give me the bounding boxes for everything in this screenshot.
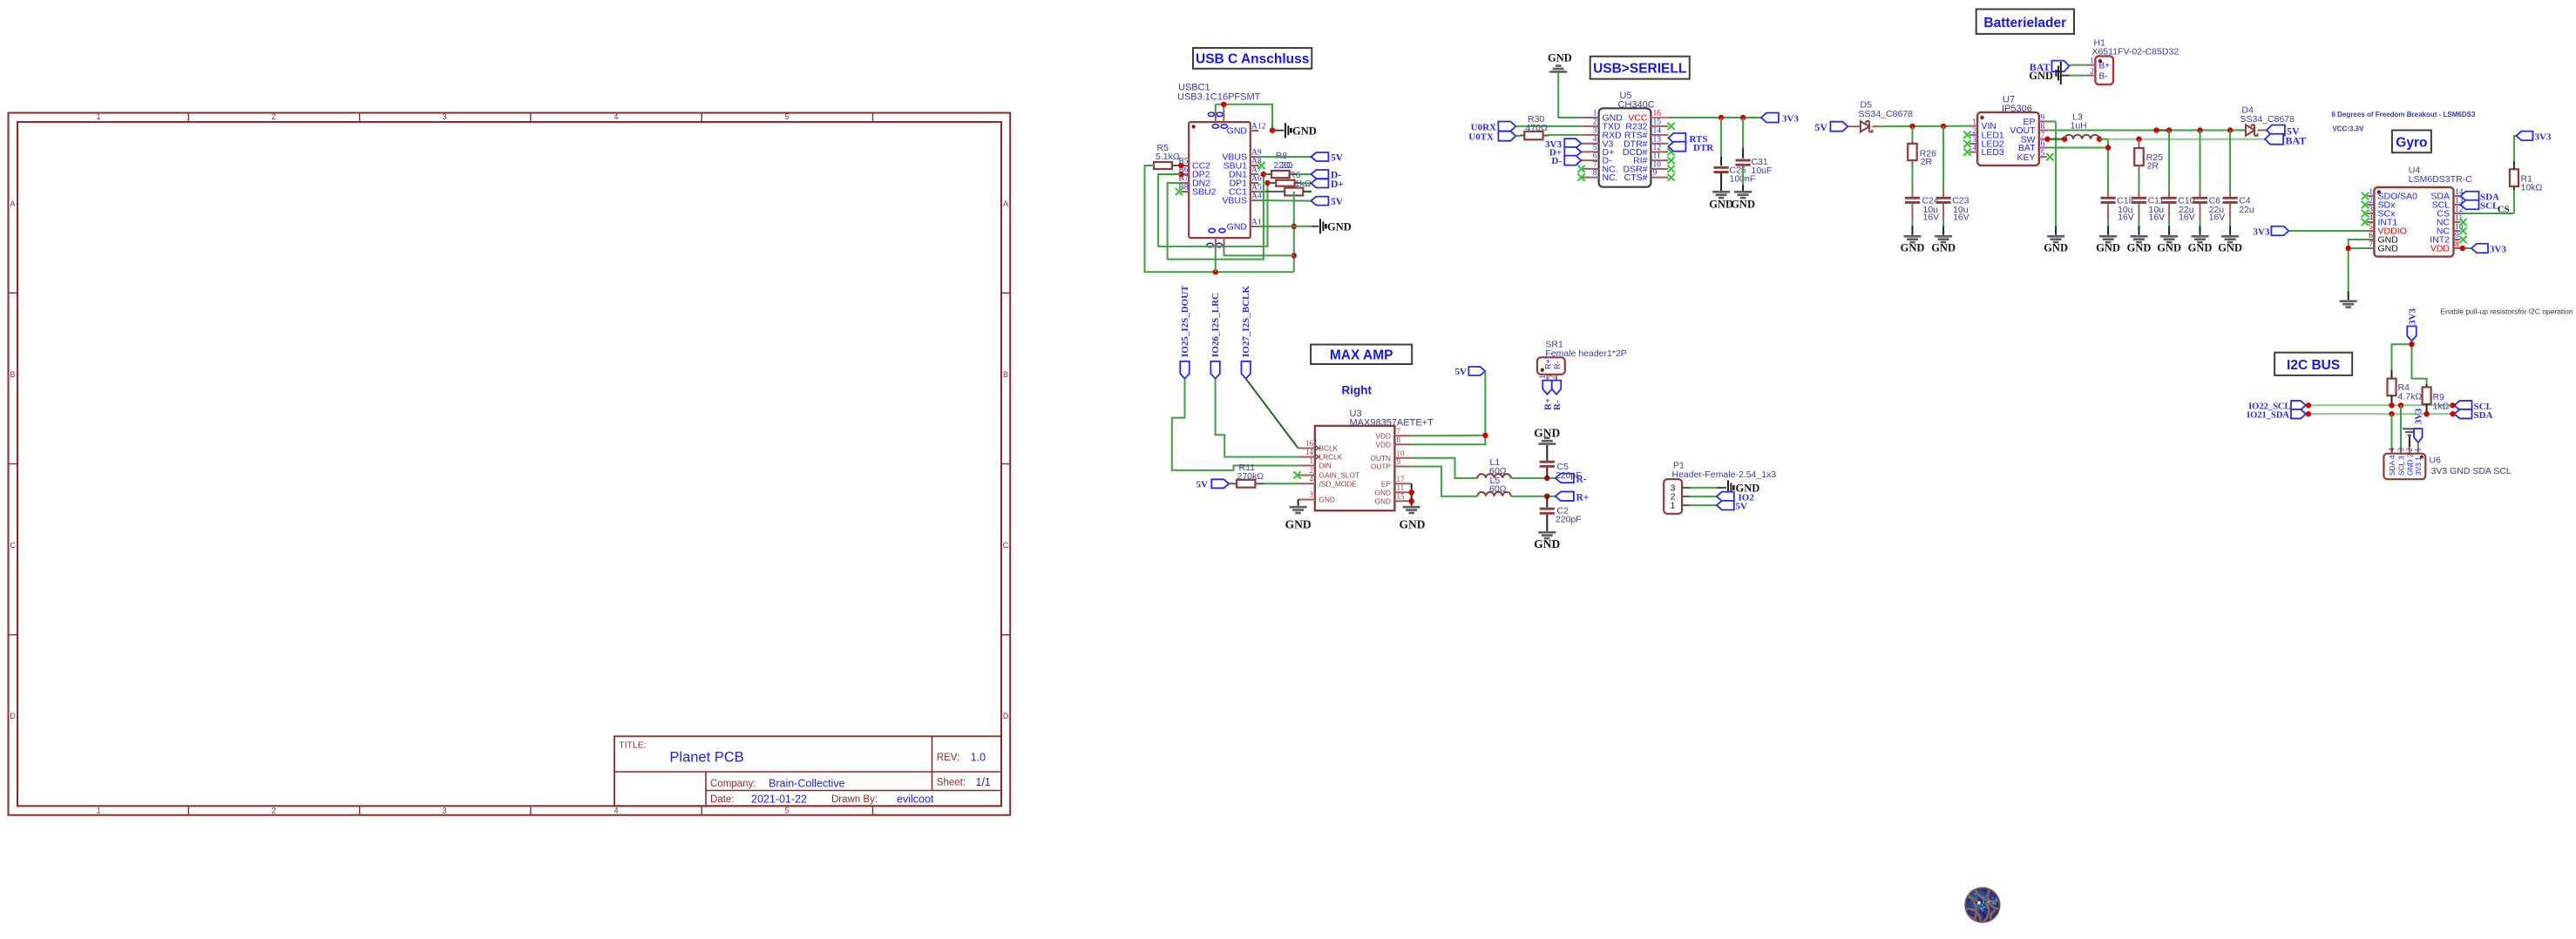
net flag RTS: [1668, 133, 1707, 145]
U4 pin numbers: [2369, 188, 2464, 249]
connector USBC1 body: [1189, 122, 1251, 238]
USBC1 shell pads top: [1208, 112, 1227, 128]
power flag 5V at P1: [1717, 501, 1747, 512]
svg-text:5V: 5V: [1814, 121, 1827, 133]
svg-text:GND: GND: [1375, 497, 1391, 505]
svg-text:C: C: [1003, 541, 1009, 550]
junction R26 top: [1909, 124, 1915, 129]
section label Gyro: [2392, 131, 2431, 153]
svg-text:1: 1: [1538, 375, 1547, 380]
svg-text:Date:: Date:: [710, 794, 735, 805]
svg-text:7: 7: [1397, 427, 1401, 436]
capacitor C4: [2223, 131, 2238, 235]
svg-text:7: 7: [1593, 161, 1597, 170]
wire pin3 GND: [1298, 500, 1299, 506]
svg-text:16: 16: [1653, 110, 1662, 118]
svg-text:15: 15: [1397, 492, 1406, 501]
header SR1 designator: [1545, 340, 1626, 359]
svg-text:5V: 5V: [1331, 197, 1344, 207]
USBC1 pin numbers: [1178, 123, 1265, 227]
svg-text:IO21_SDA: IO21_SDA: [2247, 410, 2289, 420]
svg-text:CS: CS: [2498, 206, 2510, 215]
net flag D- at pin6: [1551, 156, 1581, 167]
wire IO25 to DIN: [1172, 379, 1298, 470]
svg-text:GND: GND: [1292, 125, 1317, 137]
USBC1 shell stubs top: [1216, 105, 1224, 122]
wire VDD to 3V3: [2461, 247, 2472, 249]
svg-text:5: 5: [784, 807, 789, 815]
svg-text:10kΩ: 10kΩ: [2521, 183, 2543, 193]
svg-text:10uF: 10uF: [1752, 166, 1773, 176]
net flag R- down: [1552, 381, 1563, 410]
section label Batterielader: [1976, 10, 2074, 34]
svg-text:VCC:3.3V: VCC:3.3V: [2332, 125, 2364, 133]
inductor L1 labels: [1489, 457, 1507, 476]
resistor R8: [1264, 171, 1297, 178]
IC U5 body: [1599, 108, 1651, 186]
svg-text:SCL: SCL: [2480, 201, 2498, 212]
resistor R30 labels: [1526, 114, 1549, 133]
svg-text:1: 1: [96, 807, 100, 815]
ground at A1: [1320, 219, 1352, 233]
svg-text:2: 2: [2090, 68, 2094, 77]
inductor L5: [1477, 492, 1510, 497]
svg-text:8: 8: [1397, 436, 1401, 444]
svg-text:REV:: REV:: [937, 753, 959, 763]
ground at U3 pin3: [1285, 506, 1312, 531]
svg-text:5: 5: [1593, 144, 1597, 152]
svg-text:GND: GND: [1709, 199, 1733, 211]
wire A9 to 5V: [1258, 156, 1311, 158]
svg-text:14: 14: [1305, 448, 1314, 456]
svg-text:VBUS: VBUS: [1222, 196, 1247, 206]
svg-text:4: 4: [2388, 448, 2396, 452]
planet logo: [1964, 887, 2000, 922]
diode D5: [1847, 121, 1879, 132]
capacitor C5 labels: [1556, 462, 1582, 481]
svg-text:B+: B+: [2099, 62, 2111, 71]
svg-text:9: 9: [2455, 232, 2459, 240]
USBC1 bottom GND stubs: [1216, 238, 1294, 272]
svg-text:BCLK: BCLK: [1319, 444, 1339, 453]
svg-text:5.1kΩ: 5.1kΩ: [1156, 152, 1180, 162]
svg-text:DTR: DTR: [1693, 143, 1714, 153]
section label USB>SERIELL: [1590, 57, 1690, 79]
junction SCL to U6: [2398, 402, 2403, 408]
diode D5 labels: [1859, 100, 1914, 120]
net flag BAT: [2030, 61, 2070, 74]
wire 3V3 to R4 R9: [2392, 341, 2427, 385]
resistor R11 labels: [1237, 463, 1264, 482]
power flag 5V right: [1455, 367, 1486, 377]
svg-text:GND: GND: [1731, 199, 1755, 211]
capacitor C5: [1540, 445, 1555, 478]
svg-text:D+: D+: [1331, 179, 1344, 190]
svg-text:R+: R+: [1544, 359, 1553, 369]
wire D5 to VIN: [1879, 125, 1971, 128]
svg-text:7: 7: [2369, 240, 2373, 249]
svg-text:GND: GND: [1534, 537, 1560, 551]
svg-text:LED3: LED3: [1982, 147, 2004, 158]
svg-text:4: 4: [2369, 214, 2373, 223]
ground at U3 right: [1400, 506, 1426, 531]
junction B6: [1178, 172, 1183, 177]
svg-text:A: A: [1003, 199, 1008, 208]
svg-text:8: 8: [1593, 169, 1597, 178]
svg-text:3: 3: [2369, 206, 2373, 214]
svg-text:17: 17: [1397, 475, 1406, 483]
capacitor C31: [1736, 118, 1751, 191]
svg-text:GND: GND: [1901, 242, 1925, 254]
wire EP to GND: [2047, 122, 2056, 235]
wire battery line to BAT flag: [2108, 138, 2265, 140]
svg-text:Sheet:: Sheet:: [937, 778, 966, 788]
svg-text:B-: B-: [2099, 72, 2108, 82]
wire R30 to RXD: [1549, 134, 1582, 136]
IC U7 designator: [2002, 95, 2032, 115]
net flag 3V3 at V3: [1545, 138, 1581, 150]
svg-text:220pF: 220pF: [1556, 470, 1582, 481]
capacitor C25 labels: [1730, 166, 1756, 185]
wire VOUT line: [2047, 130, 2244, 132]
svg-text:6: 6: [1593, 152, 1597, 161]
svg-text:1: 1: [2369, 188, 2373, 197]
svg-text:1: 1: [1972, 118, 1976, 127]
junction R9 SDA: [2423, 411, 2429, 416]
svg-text:6 Degrees of Freedom Breakout: 6 Degrees of Freedom Breakout - LSM6DS3: [2332, 111, 2476, 118]
section label MAX AMP: [1311, 345, 1412, 365]
wire U0RX to TXD: [1515, 125, 1581, 127]
power flag 5V left: [1814, 121, 1847, 133]
wire GND to pin1: [1558, 73, 1581, 118]
capacitor C4 labels: [2239, 196, 2254, 216]
wire IO26 to LRCLK: [1216, 379, 1298, 457]
svg-text:CTS#: CTS#: [1624, 172, 1648, 183]
svg-text:2: 2: [2405, 448, 2414, 452]
svg-text:KEY: KEY: [2017, 152, 2035, 163]
net flag D-: [1311, 170, 1341, 181]
ground top of section: [1548, 52, 1572, 73]
diode D4: [2244, 125, 2267, 135]
U4 pin names: [2378, 192, 2451, 254]
svg-text:GND: GND: [1227, 222, 1248, 233]
capacitor C31 labels: [1752, 157, 1773, 176]
net flag SCL: [2461, 200, 2499, 212]
svg-text:GND: GND: [2218, 242, 2242, 254]
svg-text:12: 12: [1653, 144, 1662, 152]
svg-text:16V: 16V: [1923, 213, 1940, 223]
svg-text:SBU2: SBU2: [1192, 187, 1217, 198]
svg-text:3V3: 3V3: [2407, 308, 2417, 325]
net flag U0RX: [1471, 122, 1516, 133]
svg-text:4.7kΩ: 4.7kΩ: [2398, 391, 2423, 402]
net flag DTR: [1668, 142, 1714, 153]
svg-text:D-: D-: [1551, 156, 1562, 166]
junction L3 left: [2062, 137, 2067, 142]
inductor L3 labels: [2071, 112, 2087, 132]
svg-text:4: 4: [1593, 135, 1597, 144]
net flag IO21_SDA: [2247, 409, 2306, 420]
svg-text:VDD: VDD: [1375, 431, 1391, 440]
svg-text:9: 9: [1653, 169, 1657, 178]
IC U3 body: [1315, 426, 1395, 510]
net flag IO25_I2S_DOUT: [1180, 285, 1190, 379]
svg-text:evilcoot: evilcoot: [897, 793, 934, 805]
resistor R8 labels: [1273, 151, 1311, 189]
svg-text:LRCLK: LRCLK: [1319, 453, 1343, 462]
ground at H1: [2029, 62, 2069, 84]
wire R8 to D-: [1297, 173, 1311, 175]
svg-text:U6: U6: [2430, 456, 2442, 466]
svg-text:MAX AMP: MAX AMP: [1330, 348, 1393, 363]
svg-text:15: 15: [1653, 118, 1662, 127]
inductor L3: [2064, 135, 2099, 139]
net flag SDA: [2461, 192, 2500, 203]
connector H1 designator: [2092, 38, 2179, 57]
capacitor C10 labels: [2178, 196, 2195, 223]
wire CC2 to GND net: [1145, 166, 1294, 272]
svg-text:2R: 2R: [2147, 161, 2159, 172]
U7 pin numbers: [1972, 114, 2044, 159]
svg-text:Right: Right: [1342, 384, 1373, 397]
U4 left pin stubs: [2367, 196, 2374, 248]
U5 pin names: [1603, 113, 1648, 184]
wire VCC to 3V3: [1668, 117, 1761, 118]
junction VOUT 3: [2197, 127, 2202, 132]
net flag BAT right: [2265, 134, 2306, 147]
wire R1 to 3V3: [2514, 136, 2517, 162]
net flag IO27_I2S_BCLK: [1241, 286, 1251, 379]
wire EP GND pins: [1411, 483, 1413, 505]
svg-text:B: B: [1003, 370, 1008, 379]
wire R11 to SD_MODE: [1264, 483, 1298, 484]
wire OUTN to L1: [1412, 458, 1478, 478]
USBC1 pin names: [1192, 126, 1247, 233]
svg-text:5V: 5V: [1736, 502, 1748, 512]
svg-text:SCL 3: SCL 3: [2397, 456, 2406, 476]
resistor R6 on CC1: [1258, 188, 1303, 196]
svg-text:11: 11: [1397, 483, 1405, 492]
svg-text:GND: GND: [1227, 126, 1248, 137]
wire SDA to U6 pin4: [2391, 414, 2393, 454]
ground below EP: [2044, 235, 2068, 254]
IC U5 designator: [1618, 91, 1655, 111]
U3 left pin stubs: [1298, 445, 1319, 499]
capacitor C18 labels: [2117, 196, 2134, 223]
svg-text:2: 2: [271, 112, 275, 121]
U5 right pin stubs: [1651, 118, 1668, 178]
USBC1 left pin stubs: [1181, 166, 1189, 192]
diode D4 labels: [2240, 105, 2295, 125]
junction C31 top: [1740, 115, 1746, 120]
junction L3 right: [2097, 137, 2102, 142]
svg-text:Gyro: Gyro: [2396, 135, 2427, 150]
junction R25 top: [2136, 137, 2141, 142]
no-connect KEY: [2046, 153, 2053, 160]
capacitor C23: [1936, 126, 1951, 235]
svg-text:3V3: 3V3: [2535, 132, 2552, 143]
svg-text:5V: 5V: [1331, 153, 1344, 164]
capacitor C24: [1905, 165, 1920, 235]
svg-text:OUTP: OUTP: [1371, 463, 1392, 471]
junction SCL flag: [2450, 402, 2455, 408]
power flag 5V right: [2267, 125, 2300, 137]
resistor R5: [1149, 162, 1181, 169]
svg-text:LSM6DS3TR-C: LSM6DS3TR-C: [2409, 174, 2472, 185]
junction A6: [1264, 180, 1270, 186]
dark segment VOUT: [2157, 129, 2170, 131]
ground at P1: [1728, 480, 1759, 495]
svg-text:GND 2: GND 2: [2405, 453, 2414, 476]
U5 pin numbers: [1593, 110, 1662, 179]
resistor on DP1: [1268, 180, 1302, 186]
wire SW to L3: [2047, 138, 2064, 140]
inductor L1: [1477, 474, 1510, 478]
title block: [614, 736, 1001, 806]
svg-text:5: 5: [784, 112, 789, 121]
svg-text:GAIN_SLOT: GAIN_SLOT: [1319, 471, 1360, 480]
resistor R26 labels: [1920, 149, 1936, 168]
header U6 designator: [2430, 456, 2512, 477]
svg-text:GND: GND: [1327, 220, 1352, 233]
no-connect U4 left: [2362, 193, 2369, 226]
resistor R11: [1229, 480, 1264, 488]
power flag 5V at SD_MODE: [1196, 479, 1230, 490]
ground at U6 pin2: [2403, 428, 2417, 454]
svg-text:USB3.1C16PFSMT: USB3.1C16PFSMT: [1177, 92, 1261, 103]
no-connect LED pins: [1963, 132, 1970, 156]
net flag U0TX: [1468, 132, 1515, 143]
svg-text:1: 1: [96, 112, 100, 121]
U5 left pin stubs: [1582, 118, 1599, 178]
junction pin15: [1409, 498, 1414, 503]
junction IO22: [2306, 402, 2311, 408]
svg-text:3V3 GND SDA SCL: 3V3 GND SDA SCL: [2431, 466, 2512, 476]
svg-text:GND: GND: [2188, 242, 2213, 254]
net flag IO22_SCL: [2248, 401, 2306, 411]
svg-text:7: 7: [2041, 132, 2045, 140]
capacitor C6: [2193, 131, 2207, 235]
svg-text:16V: 16V: [2179, 213, 2195, 223]
svg-text:4: 4: [613, 112, 618, 121]
capacitor C11 labels: [2148, 196, 2166, 223]
svg-text:Company:: Company:: [710, 779, 756, 789]
wire shell to A12 GND: [1216, 105, 1272, 131]
svg-text:VDD: VDD: [2430, 244, 2451, 254]
net flag R-: [1556, 474, 1587, 485]
svg-text:Header-Female-2.54_1x3: Header-Female-2.54_1x3: [1672, 469, 1777, 480]
svg-text:3V3: 3V3: [1782, 114, 1799, 125]
power flag 3V3 at U6 pin1: [2414, 409, 2423, 454]
svg-text:16V: 16V: [2149, 213, 2166, 223]
net flag SDA right: [2455, 409, 2493, 421]
sheet border frame: [9, 112, 1011, 815]
junction VDD U4: [2460, 246, 2465, 251]
svg-text:3V3 1: 3V3 1: [2414, 456, 2423, 476]
svg-text:GND: GND: [2157, 242, 2181, 254]
wire SCL bus: [2308, 404, 2455, 406]
IC U7 body: [1977, 112, 2039, 166]
svg-text:1/1: 1/1: [976, 776, 991, 788]
junction SDA flag: [2450, 411, 2455, 416]
svg-text:GND: GND: [1548, 52, 1572, 64]
resistor R25 labels: [2146, 152, 2163, 172]
svg-text:22u: 22u: [2239, 205, 2254, 215]
svg-text:SDA: SDA: [2474, 410, 2493, 421]
svg-text:1: 1: [1310, 456, 1314, 465]
junction 3V3 pullup: [2409, 341, 2414, 347]
wire R6 down to GND net: [1293, 192, 1295, 272]
junction A7: [1261, 172, 1266, 177]
junction VOUT 4: [2227, 127, 2233, 132]
wire CS: [2461, 186, 2514, 215]
svg-text:DIN: DIN: [1319, 462, 1332, 470]
svg-text:1: 1: [1671, 501, 1676, 511]
ground below C24: [1901, 235, 1925, 254]
svg-text:GND: GND: [2378, 244, 2399, 254]
wire L5 to R+: [1511, 496, 1556, 497]
header U6 body: [2383, 453, 2425, 479]
wire to D+: [1301, 183, 1311, 185]
resistor R4: [2388, 370, 2396, 406]
resistor R1: [2510, 162, 2518, 186]
no-connect B8: [1176, 188, 1183, 195]
svg-text:11: 11: [1653, 152, 1661, 161]
power flag 3V3 at VDD: [2471, 244, 2506, 255]
svg-text:USB>SERIELL: USB>SERIELL: [1593, 62, 1686, 77]
wire P1 pin1 to 5V: [1690, 504, 1717, 506]
svg-text:IO25_I2S_DOUT: IO25_I2S_DOUT: [1180, 285, 1190, 357]
net flag SCL right: [2455, 401, 2492, 412]
power flag 3V3 pullups: [2407, 308, 2417, 341]
no-connect GAIN_SLOT: [1293, 471, 1300, 478]
connector H1 body: [2095, 56, 2113, 84]
svg-text:C: C: [10, 541, 16, 550]
resistor R4 labels: [2398, 382, 2423, 402]
junction R-: [1544, 476, 1549, 481]
svg-text:NC.: NC.: [1603, 172, 1618, 183]
ground above C5: [1534, 427, 1560, 445]
ground below C11: [2127, 235, 2152, 254]
svg-text:SS34_C8678: SS34_C8678: [1859, 109, 1914, 119]
capacitor C6 labels: [2209, 196, 2226, 223]
svg-text:Planet PCB: Planet PCB: [669, 750, 743, 766]
wire U4 GND pins: [2349, 240, 2368, 300]
wire DN2 down: [1168, 174, 1264, 260]
no-connect A8: [1257, 162, 1264, 169]
junction B5: [1178, 163, 1183, 168]
svg-text:3: 3: [2396, 448, 2405, 452]
wire OUTP to L5: [1412, 467, 1478, 497]
ground below U4: [2340, 301, 2357, 308]
svg-text:R+: R+: [1576, 492, 1590, 503]
IC U3 designator: [1350, 409, 1434, 428]
header SR1 body: [1537, 357, 1565, 375]
junction R4 SCL: [2389, 402, 2394, 408]
svg-text:6: 6: [2369, 232, 2373, 240]
U7 left pin stubs: [1969, 126, 1977, 152]
section label I2C BUS: [2274, 353, 2352, 375]
ground below C6: [2188, 235, 2213, 254]
wire IO27 to BCLK: [1246, 379, 1298, 449]
power flag 5V at A9: [1311, 152, 1343, 164]
svg-text:EP: EP: [1381, 479, 1392, 488]
net flag R+ down: [1542, 381, 1553, 410]
net flag IO2: [1717, 492, 1755, 503]
svg-text:3V3: 3V3: [2414, 409, 2423, 424]
U7 right pin stubs: [2039, 122, 2047, 158]
svg-text:GND: GND: [1375, 488, 1391, 497]
